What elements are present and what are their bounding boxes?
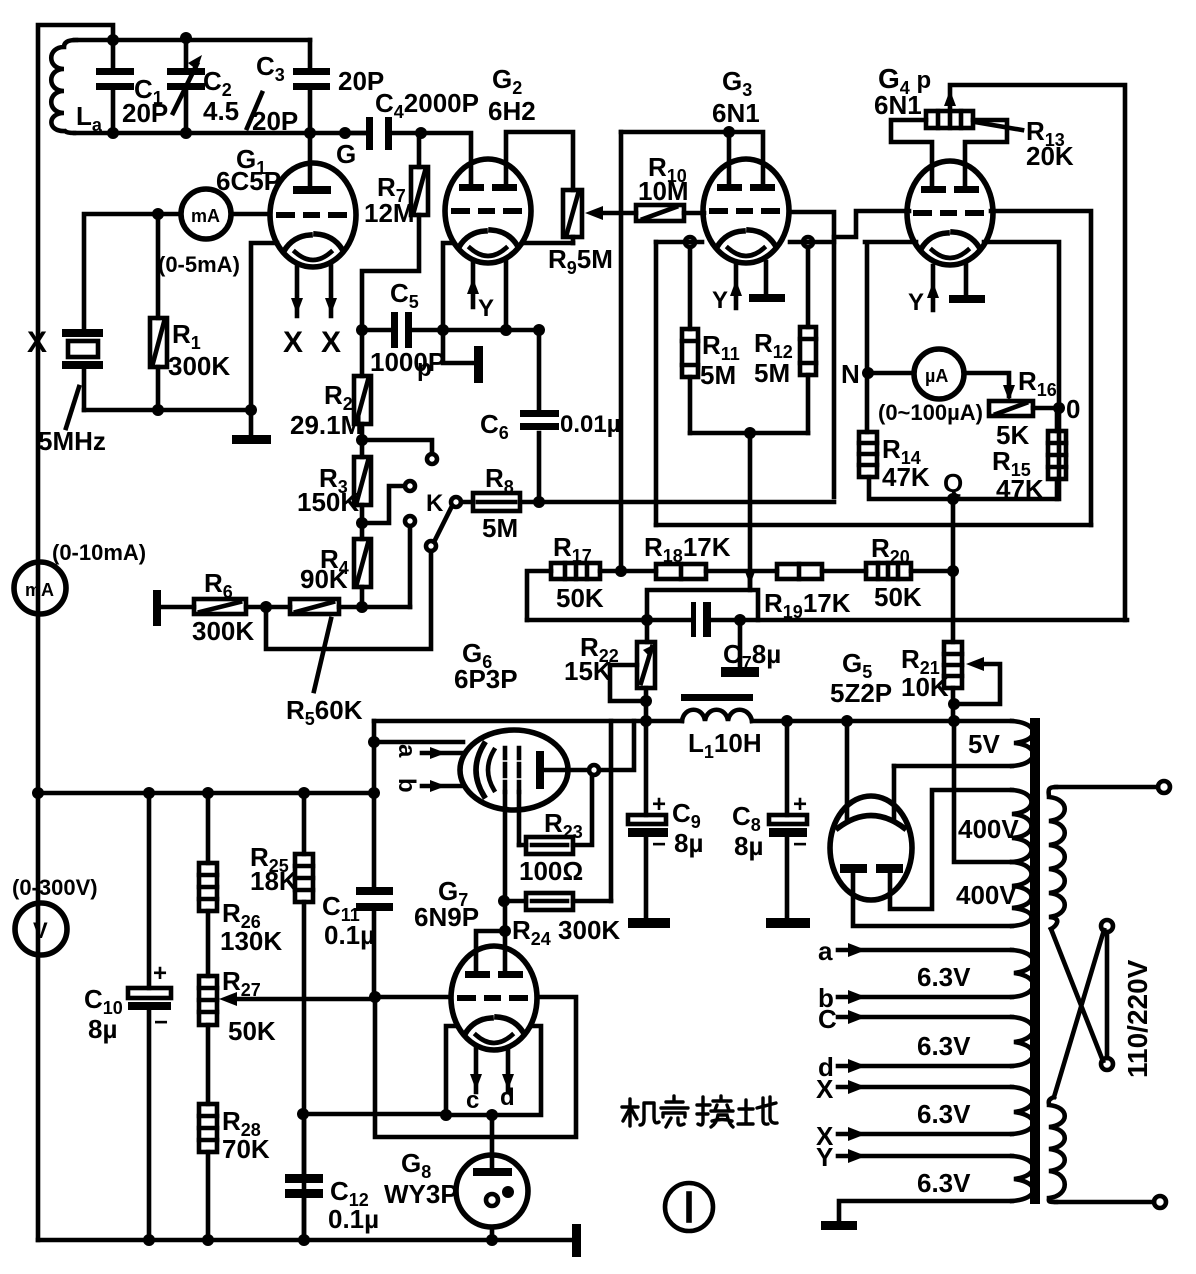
svg-text:c: c: [466, 1087, 479, 1114]
junction G8/bottom rail: [486, 1234, 498, 1246]
label pointer R13: [975, 122, 1022, 130]
crystal X 5MHz: [62, 329, 103, 337]
wire G8 bottom lead: [490, 1227, 495, 1240]
wire G2 right plate to R9 top: [506, 132, 573, 190]
tap Y: [838, 1154, 1012, 1159]
wire G2 cathode box: [443, 243, 573, 330]
resistor R23 100 ohm: [519, 775, 592, 845]
capacitor C8 8u: [785, 721, 790, 919]
wire R19 to R20: [822, 569, 866, 574]
junction rail793 R25: [298, 787, 310, 799]
capacitor C2 (trimmer 4.5/20P): [184, 38, 189, 133]
wire R21 wiper loop: [954, 664, 1000, 704]
terminal circle crossover upper: [1101, 920, 1113, 932]
ground C9: [628, 918, 670, 928]
junction R8/C6: [533, 496, 545, 508]
svg-text:6.3V: 6.3V: [917, 1031, 971, 1061]
ground C7: [738, 620, 743, 669]
junction C4/R7: [415, 127, 427, 139]
junction G7 plate feed: [499, 925, 511, 937]
capacitor C5 1000P: [362, 328, 443, 333]
wire G6 heater input b: [422, 784, 462, 789]
svg-text:5MHz: 5MHz: [38, 426, 106, 456]
resistor R4 90K: [354, 539, 371, 587]
wire C12/G8 line: [303, 1112, 446, 1117]
svg-text:X: X: [283, 326, 303, 359]
svg-text:Q: Q: [943, 468, 963, 498]
winding primary upper: [1049, 787, 1065, 929]
svg-text:−: −: [652, 831, 666, 858]
junction G2 cathode: [500, 324, 512, 336]
wire crystal bus: [84, 408, 251, 413]
svg-text:Y: Y: [816, 1142, 833, 1172]
wire C7 bypass bridge: [647, 571, 758, 620]
junction C1 top: [107, 34, 119, 46]
terminal circle bottom: [1154, 1196, 1166, 1208]
svg-text:X: X: [816, 1074, 834, 1104]
svg-text:+: +: [153, 960, 167, 987]
wire G4 grid link to box: [834, 211, 909, 237]
meter V (0-300V): [15, 903, 67, 955]
wire G1 grid cap stem: [308, 133, 313, 188]
svg-text:12M: 12M: [364, 198, 415, 228]
terminal circle top: [1158, 781, 1170, 793]
svg-text:K: K: [426, 490, 444, 517]
wire G6 plate line: [544, 721, 634, 770]
svg-text:X: X: [321, 326, 341, 359]
switch contact 2: [405, 481, 415, 491]
junction R22/C9 on rail: [640, 715, 652, 727]
svg-text:90K: 90K: [300, 564, 348, 594]
svg-text:R560K: R560K: [286, 695, 363, 729]
resistor R12 5M: [806, 247, 811, 433]
G6 grid dashes: [505, 748, 519, 792]
resistor R22 15K: [646, 620, 647, 721]
winding 6.3V no.3: [1012, 1087, 1033, 1134]
svg-text:mA: mA: [191, 206, 220, 226]
wire rail 620 with right vertical: [527, 618, 1127, 623]
svg-text:X: X: [27, 326, 47, 359]
wire G4 Y stub: [931, 266, 936, 310]
winding 5V: [1012, 721, 1033, 766]
wire G3 Y stub: [734, 264, 739, 308]
svg-text:100Ω: 100Ω: [519, 856, 583, 886]
svg-text:47K: 47K: [882, 462, 930, 492]
inductor La (oscillator coil): [51, 40, 76, 133]
meter mA (0-10mA): [14, 562, 66, 614]
resistor R8 5M: [461, 500, 834, 505]
svg-text:20P: 20P: [252, 106, 298, 136]
terminal p: [443, 330, 472, 363]
resistor R16 5K: [1003, 385, 1015, 401]
svg-text:6.3V: 6.3V: [917, 1099, 971, 1129]
switch K arm: [426, 541, 436, 551]
resistor R3 150K: [354, 457, 371, 505]
resistor R10 10M: [636, 205, 684, 221]
ground C8: [766, 918, 810, 928]
label chassis ground (Chinese): [622, 1096, 777, 1127]
svg-text:47K: 47K: [996, 474, 1044, 504]
wire top rail C4 to G2 left plate: [421, 133, 471, 188]
wire R9 wiper from R10: [601, 211, 636, 216]
svg-text:L110H: L110H: [688, 728, 762, 762]
svg-text:50K: 50K: [556, 583, 604, 613]
winding primary lower: [1049, 1097, 1065, 1202]
resistor R25 18K: [302, 793, 307, 1240]
tube G2 6H2: [445, 159, 531, 263]
wire G2 right bottom lead: [504, 260, 509, 330]
wire 5V bottom line: [894, 764, 1012, 769]
switch contact 1: [427, 454, 437, 464]
wire G6 screen down: [503, 792, 508, 931]
wire coil box top edge: [75, 38, 310, 43]
chassis bar G4 cathode: [964, 264, 969, 297]
chassis bar G3 cathode: [764, 262, 769, 296]
wire meter to G1: [231, 212, 270, 217]
svg-text:50K: 50K: [228, 1016, 276, 1046]
junction C2 top: [180, 32, 192, 44]
wire ground rail 793: [38, 791, 374, 796]
winding 400V upper: [1012, 790, 1032, 862]
wire G7 grid line left (from R27 wiper): [375, 995, 451, 1000]
tube G7 6N9P: [451, 946, 537, 1050]
svg-text:20P: 20P: [122, 98, 168, 128]
wire R20 to Q vertical: [911, 569, 953, 574]
svg-text:V: V: [33, 918, 48, 943]
junction a-line: [368, 736, 380, 748]
resistor R14 47K: [859, 432, 877, 477]
tube G4 6N1: [907, 161, 993, 265]
resistor R1 300K: [156, 214, 161, 410]
wire primary bottom terminal: [1056, 1200, 1154, 1205]
wire G7 c stub: [474, 1049, 479, 1092]
junction R2/R3/switch: [356, 434, 368, 446]
svg-text:R1817K: R1817K: [644, 532, 731, 566]
svg-text:R95M: R95M: [548, 244, 613, 278]
svg-text:a: a: [818, 936, 833, 966]
wire contact 3 to R5/R6 bus: [408, 526, 413, 607]
junction rail793 R26: [202, 787, 214, 799]
resistor R13 20K: [926, 111, 973, 128]
wire long vertical from top rail to R17 row: [619, 132, 624, 571]
capacitor C9 8u: [644, 721, 649, 919]
svg-text:6H2: 6H2: [488, 96, 536, 126]
wire crossover X: [1051, 929, 1107, 1097]
svg-text:−: −: [154, 1009, 168, 1036]
junction C10/bottom rail: [143, 1234, 155, 1246]
wire G6 box left edge / C11 column: [372, 721, 377, 997]
svg-text:+: +: [793, 791, 807, 818]
capacitor C11 0.1u: [356, 887, 393, 895]
svg-text:6N1: 6N1: [712, 98, 760, 128]
meter uA: [868, 373, 1009, 396]
connector circle G6 plate/R23: [589, 765, 599, 775]
tube G3 6N1: [703, 159, 789, 263]
junction rail793 C10: [143, 787, 155, 799]
wire R16 to node O: [1033, 406, 1059, 411]
svg-text:50K: 50K: [874, 582, 922, 612]
tube G8 WY3P: [456, 1155, 528, 1227]
svg-text:6N1: 6N1: [874, 90, 922, 120]
junction R28/bottom rail: [202, 1234, 214, 1246]
junction cathode box center: [486, 1109, 498, 1121]
wire G5 right plate to 400V top: [890, 790, 1012, 909]
svg-text:300K: 300K: [192, 616, 254, 646]
junction cathode/crystal bus: [245, 404, 257, 416]
svg-text:20K: 20K: [1026, 141, 1074, 171]
wire G2 cathode stub Y: [471, 262, 476, 307]
svg-text:5V: 5V: [968, 729, 1000, 759]
svg-text:1000P: 1000P: [370, 347, 445, 377]
junction R1 top: [152, 208, 164, 220]
capacitor C6 0.01u: [537, 330, 542, 502]
svg-text:8µ: 8µ: [734, 831, 763, 861]
wire G1 cathode to ground: [251, 243, 277, 437]
svg-text:0.1µ: 0.1µ: [324, 920, 375, 950]
svg-text:(0-300V): (0-300V): [12, 875, 98, 900]
svg-text:300K: 300K: [168, 351, 230, 381]
svg-text:Y: Y: [478, 295, 494, 322]
capacitor C12 0.1u: [302, 1114, 307, 1240]
svg-text:6P3P: 6P3P: [454, 664, 518, 694]
wire R10 to G3 grid: [684, 211, 704, 216]
svg-text:15K: 15K: [564, 656, 612, 686]
svg-text:G: G: [336, 139, 356, 169]
svg-text:6.3V: 6.3V: [917, 962, 971, 992]
wire meter left to crystal top: [84, 214, 181, 331]
node Q: [947, 493, 959, 505]
wire R13 wiper up and over to right vertical: [950, 85, 1125, 620]
node N: [862, 367, 874, 379]
svg-text:(0~100µA): (0~100µA): [878, 400, 983, 425]
wire R11/R12 box left edge: [654, 242, 659, 525]
svg-text:8µ: 8µ: [88, 1014, 117, 1044]
resistor R21 10K: [944, 642, 962, 688]
svg-text:400V: 400V: [958, 814, 1019, 844]
svg-text:5M: 5M: [700, 360, 736, 390]
resistor R9 5M: [563, 190, 582, 237]
junction C2 bottom: [180, 127, 192, 139]
wire G5 filament right from 5V winding: [892, 766, 897, 820]
junction C8 rail: [781, 715, 793, 727]
wire center tap down to R18/R19 node: [748, 433, 753, 590]
wire B+ rail 721: [374, 719, 1012, 724]
tap X upper: [838, 1085, 1012, 1090]
svg-text:R1917K: R1917K: [764, 588, 851, 622]
tube G1 6C5P: [270, 163, 356, 267]
G6 anode bar: [536, 751, 544, 789]
junction R25/bottom rail: [298, 1234, 310, 1246]
node G: [339, 127, 351, 139]
wire C5 line to C6: [443, 328, 539, 333]
wire primary top terminal: [1056, 785, 1158, 790]
resistor R5 60K: [290, 599, 339, 614]
svg-text:C42000P: C42000P: [375, 88, 479, 122]
wire G4 grid right extension down to 524 rail: [991, 211, 1091, 525]
svg-text:−: −: [793, 831, 807, 858]
svg-text:C: C: [818, 1004, 837, 1034]
svg-text:N: N: [841, 359, 860, 389]
wire R13 left lead to G4 left plate: [891, 120, 932, 186]
junction R6/R5: [260, 601, 272, 613]
svg-text:µA: µA: [925, 366, 948, 386]
svg-text:0.01µ: 0.01µ: [560, 411, 621, 438]
svg-text:400V: 400V: [956, 880, 1017, 910]
tap d: [838, 1064, 1012, 1069]
tap C: [838, 1015, 1012, 1020]
junction G2 box left: [437, 324, 449, 336]
resistor R19 17K: [777, 564, 822, 579]
inductor L1 10H: [682, 710, 752, 721]
junction R3/R4: [356, 517, 368, 529]
resistor R24 300K: [504, 899, 611, 904]
capacitor C1: [111, 40, 116, 133]
wire bottom ground rail: [38, 1238, 572, 1243]
junction R22 bottom: [640, 695, 652, 707]
junction rail-793 left column: [368, 787, 380, 799]
wire coil box bottom edge / grid bus: [75, 131, 368, 136]
junction R21 bottom: [948, 698, 960, 710]
wire G6 grid down to R23: [517, 792, 522, 845]
junction R24 left: [498, 895, 510, 907]
capacitor C4 2000P: [345, 131, 421, 136]
svg-text:WY3P: WY3P: [384, 1179, 458, 1209]
junction R11/R12 center tap: [744, 427, 756, 439]
svg-text:5M: 5M: [754, 358, 790, 388]
junction C11/G7 grid: [369, 991, 381, 1003]
resistor R27 50K: [199, 976, 217, 1025]
wire R13 right lead to G4 right plate: [965, 120, 1007, 186]
svg-text:+: +: [652, 791, 666, 818]
svg-text:6N9P: 6N9P: [414, 902, 479, 932]
svg-text:(0-10mA): (0-10mA): [52, 540, 146, 565]
switch contact 3: [405, 516, 415, 526]
capacitor C3: [308, 40, 313, 133]
wire G7 plate stems: [476, 931, 505, 975]
wire G5 filament left from rail: [845, 721, 850, 818]
junction R17/R18: [615, 565, 627, 577]
connector circle R11 top: [685, 237, 695, 247]
junction G3 left plate: [723, 126, 735, 138]
svg-text:Y: Y: [712, 287, 728, 314]
junction rail793 at border: [32, 787, 44, 799]
wire R27 wiper to G7 grid: [234, 997, 375, 1002]
winding 6.3V no.4: [1012, 1156, 1033, 1201]
wire R3/R4 junction to switch contact 2: [362, 486, 404, 539]
svg-text:10M: 10M: [638, 176, 689, 206]
transformer core: [1030, 718, 1040, 1204]
capacitor C10 8u: [147, 793, 152, 1240]
junction C1 bottom: [107, 127, 119, 139]
wire arm to R5 bottom loop: [266, 551, 431, 649]
meter mA (0-5mA): [181, 189, 231, 239]
svg-text:p: p: [417, 355, 432, 382]
junction cathode box left: [440, 1109, 452, 1121]
wire G4 meter box: [865, 242, 1059, 499]
svg-text:R24 300K: R24 300K: [512, 915, 620, 949]
wire rail 525: [656, 523, 1091, 528]
ground transformer secondary: [821, 1221, 857, 1230]
tap b: [838, 995, 1012, 1000]
svg-text:130K: 130K: [220, 926, 282, 956]
svg-text:a: a: [393, 744, 420, 758]
resistor R15 47K: [1055, 408, 1060, 499]
svg-text:29.1M: 29.1M: [290, 410, 362, 440]
svg-text:150K: 150K: [297, 487, 359, 517]
svg-text:6.3V: 6.3V: [917, 1168, 971, 1198]
winding 6.3V no.1: [1012, 950, 1033, 997]
svg-text:110/220V: 110/220V: [1122, 959, 1153, 1078]
tube G6 6P3P: [460, 730, 568, 810]
resistor R28 70K: [206, 1025, 211, 1240]
wire top rail G3: [621, 132, 763, 188]
G6 cathode arcs: [476, 744, 484, 796]
svg-text:0: 0: [1066, 394, 1080, 424]
wire R24 right lead vertical: [609, 721, 614, 901]
resistor R26 130K: [206, 793, 211, 976]
wire terminal to R6: [157, 605, 194, 610]
wire cathode line to G8: [490, 1115, 495, 1170]
wire 400V center tap: [954, 721, 1012, 862]
wire G3 grid right extension: [789, 212, 834, 497]
wire R11/R12 box top line: [656, 240, 834, 245]
svg-text:0.1µ: 0.1µ: [328, 1204, 379, 1234]
junction G5 filament rail: [841, 715, 853, 727]
junction C7 left: [641, 614, 653, 626]
winding 400V lower: [1012, 862, 1032, 926]
winding 6.3V no.2: [1012, 1017, 1033, 1066]
node O: [1053, 402, 1065, 414]
resistor R6 300K: [194, 599, 246, 614]
wire R2 bottom to switch contact 1: [362, 440, 432, 453]
svg-text:5Z2P: 5Z2P: [830, 678, 892, 708]
wire G5 left plate to 400V bottom: [853, 873, 1012, 926]
tap a: [838, 948, 1012, 953]
tube G5 5Z2P: [830, 796, 912, 900]
wire R18 to R19: [706, 569, 777, 574]
junction R7/R2/C5: [356, 324, 368, 336]
svg-text:8µ: 8µ: [674, 828, 703, 858]
junction C3/G1 grid: [304, 127, 316, 139]
junction R21 rail: [948, 715, 960, 727]
svg-text:d: d: [500, 1084, 515, 1111]
wire G7 cathode box: [446, 1026, 541, 1115]
wire G6 heater input a: [374, 742, 463, 753]
wire G1 X deflection stubs: [297, 265, 331, 316]
svg-text:b: b: [393, 778, 420, 793]
svg-text:4.5: 4.5: [203, 96, 239, 126]
wire 6.3V bottom to ground: [839, 1201, 1012, 1222]
svg-text:70K: 70K: [222, 1134, 270, 1164]
svg-text:10K: 10K: [901, 672, 949, 702]
junction R1 bottom: [152, 404, 164, 416]
junction R25 column / C12 line: [297, 1108, 309, 1120]
svg-text:mA: mA: [25, 580, 54, 600]
svg-text:Y: Y: [908, 289, 924, 316]
wire Q down to R21: [951, 499, 956, 642]
resistor R17 50K: [527, 571, 656, 620]
symbol circled 1: [665, 1183, 713, 1231]
svg-text:18K: 18K: [250, 866, 298, 896]
resistor R7 12M: [362, 133, 419, 330]
resistor R2 29.1M: [360, 330, 365, 457]
junction R20/Q: [947, 565, 959, 577]
wire G7 grid right and outer box: [375, 997, 576, 1137]
svg-text:5M: 5M: [482, 513, 518, 543]
svg-text:6C5P: 6C5P: [216, 166, 281, 196]
junction C6 top: [533, 324, 545, 336]
terminal bar bottom rail: [572, 1224, 581, 1257]
